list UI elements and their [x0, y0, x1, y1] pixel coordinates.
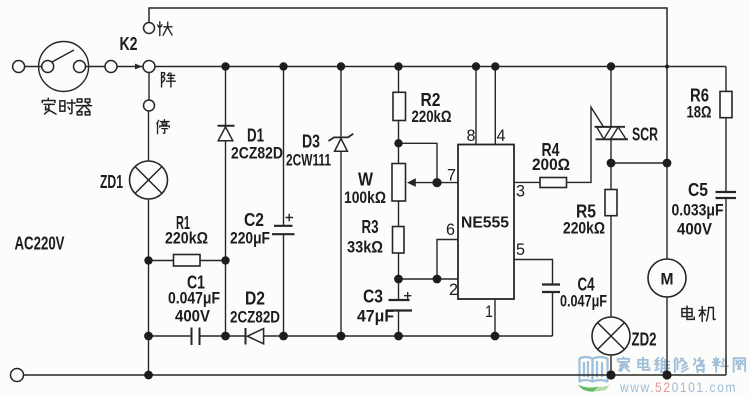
- wire top line from K2 fast contact across to motor column: [149, 8, 667, 163]
- terminal middle: [105, 61, 117, 73]
- timer contact left: [42, 61, 54, 73]
- watermark text 家电维修资料网: [618, 357, 745, 372]
- svg-text:3: 3: [516, 183, 525, 201]
- wire main AC line: [155, 66, 726, 68]
- resistor R3 box: [393, 227, 405, 254]
- junction dot pin7: [432, 178, 441, 187]
- wire timer to middle terminal: [86, 66, 105, 68]
- svg-text:R3: R3: [362, 217, 379, 237]
- svg-text:ZD1: ZD1: [100, 172, 123, 192]
- wire C2 column: [283, 67, 285, 226]
- wire bottom rail: [24, 374, 727, 376]
- wire pin 5 to C4: [514, 260, 553, 285]
- svg-text:ZD2: ZD2: [632, 330, 657, 350]
- diode D2: [245, 328, 247, 345]
- svg-text:220kΩ: 220kΩ: [563, 220, 605, 238]
- watermark green swoosh: [578, 385, 598, 392]
- svg-text:400V: 400V: [677, 221, 712, 239]
- capacitor C3 plates polarized: [389, 299, 410, 301]
- wire link R2 bottom to pin 7: [399, 143, 438, 182]
- wire K2 pole to stop contact: [148, 73, 150, 101]
- capacitor C4 plates: [542, 283, 560, 285]
- svg-text:R6: R6: [690, 86, 709, 106]
- svg-text:C2: C2: [244, 210, 264, 230]
- svg-text:M: M: [661, 271, 674, 289]
- svg-text:8: 8: [467, 127, 476, 145]
- resistor R6 box: [720, 91, 732, 117]
- label 快 fast: [158, 22, 172, 36]
- svg-text:47μF: 47μF: [357, 308, 394, 326]
- junction dots common line: [144, 332, 153, 341]
- switch K2 fast contact 快: [144, 23, 155, 34]
- wire D1 column: [225, 67, 227, 126]
- label 定时器 timer: [42, 98, 56, 114]
- svg-text:400V: 400V: [175, 308, 210, 326]
- wire R6-C5 column: [725, 67, 727, 92]
- wire stop contact down to lamp ZD1: [148, 111, 150, 161]
- wire ZD1 column down to bottom rail: [148, 199, 150, 375]
- wire pin 3 to R4: [514, 181, 540, 183]
- svg-text:2CW111: 2CW111: [286, 152, 331, 170]
- svg-text:200Ω: 200Ω: [532, 156, 570, 174]
- switch K2 pole contact: [143, 61, 155, 73]
- terminal left AC input top: [13, 61, 25, 73]
- timer contact right: [74, 61, 86, 73]
- svg-text:R2: R2: [421, 90, 441, 110]
- wire D3 column: [340, 67, 342, 138]
- junction dot R2 bottom: [394, 139, 402, 147]
- junction dots SCR cathode: [607, 159, 616, 168]
- wire left terminal to timer: [25, 66, 42, 68]
- svg-text:D2: D2: [245, 289, 265, 309]
- svg-text:C3: C3: [363, 287, 383, 307]
- thyristor SCR triac symbol: [595, 126, 626, 128]
- wire R5 to ZD2: [610, 163, 612, 190]
- diode D1: [218, 125, 235, 127]
- svg-text:18Ω: 18Ω: [687, 104, 712, 122]
- svg-text:2CZ82D: 2CZ82D: [231, 145, 283, 163]
- svg-text:D1: D1: [247, 126, 264, 146]
- timer blade: [51, 50, 74, 63]
- wire SCR column: [610, 67, 612, 127]
- capacitor C2 plates polarized: [274, 225, 293, 227]
- svg-text:220μF: 220μF: [230, 230, 270, 248]
- resistor R4 box: [540, 178, 567, 188]
- svg-text:W: W: [358, 170, 373, 190]
- svg-text:6: 6: [446, 221, 455, 239]
- label 停 stop: [157, 120, 170, 134]
- watermark book icon: [580, 357, 608, 382]
- wire motor column: [666, 163, 668, 259]
- svg-text:AC220V: AC220V: [15, 234, 65, 254]
- wire ZD2 to bottom rail: [610, 355, 612, 375]
- svg-text:0.047μF: 0.047μF: [168, 290, 220, 308]
- svg-text:www.520101.com: www.520101.com: [619, 380, 737, 395]
- svg-text:220kΩ: 220kΩ: [412, 108, 452, 126]
- svg-text:7: 7: [447, 167, 456, 185]
- wire pin 8: [475, 67, 477, 145]
- svg-text:2: 2: [449, 281, 458, 299]
- wire pin 6 stub: [437, 240, 458, 280]
- svg-text:0.047μF: 0.047μF: [560, 293, 607, 311]
- resistor R2 box: [393, 92, 406, 120]
- wire C4 bottom to common line: [552, 292, 554, 336]
- svg-text:0.033μF: 0.033μF: [672, 202, 724, 220]
- svg-text:33kΩ: 33kΩ: [347, 239, 383, 257]
- zener D3: [329, 134, 354, 141]
- wire pin 4: [494, 67, 496, 145]
- resistor R1 box: [174, 255, 201, 267]
- svg-text:2CZ82D: 2CZ82D: [230, 309, 280, 327]
- junction dots pin2 line: [394, 275, 403, 284]
- capacitor C1 plates: [191, 328, 193, 346]
- junction dots bottom rail: [144, 371, 153, 380]
- wire R2-W-R3-C3 column: [398, 67, 400, 93]
- junction dots main line: [221, 62, 229, 70]
- svg-text:1: 1: [485, 303, 493, 321]
- svg-text:C4: C4: [578, 275, 595, 295]
- wire R4 to SCR gate: [567, 107, 604, 182]
- IC NE555 box: [458, 145, 514, 300]
- capacitor C5 plates: [716, 191, 737, 193]
- label 阵 gust: [162, 72, 176, 87]
- svg-text:NE555: NE555: [461, 215, 509, 232]
- svg-text:K2: K2: [120, 34, 138, 54]
- svg-text:100kΩ: 100kΩ: [344, 189, 386, 207]
- junction dots R1: [144, 256, 152, 264]
- svg-text:SCR: SCR: [632, 125, 658, 145]
- lamp ZD1: [130, 161, 168, 199]
- label 电机 motor: [682, 306, 694, 319]
- timer switch body 定时器: [39, 42, 89, 92]
- svg-text:5: 5: [516, 241, 525, 259]
- svg-text:220kΩ: 220kΩ: [165, 230, 208, 248]
- wire middle terminal to K2 pole with arrow: [117, 66, 143, 68]
- wire pin 1: [494, 299, 496, 336]
- wire SCR cathode to motor column: [611, 162, 667, 164]
- svg-text:4: 4: [497, 127, 506, 145]
- svg-text:C5: C5: [688, 180, 708, 200]
- terminal left AC input bottom: [11, 369, 24, 382]
- svg-text:R5: R5: [576, 202, 596, 222]
- resistor R5 box: [605, 190, 617, 216]
- arrow into K2 pole: [135, 64, 142, 70]
- wire pin 2: [399, 278, 459, 280]
- switch K2 stop contact 停: [144, 100, 155, 111]
- lamp ZD2: [592, 317, 630, 355]
- small crossing blob: [665, 65, 669, 69]
- motor M: [648, 259, 686, 297]
- wire pin 7: [416, 182, 459, 184]
- potentiometer W box: [392, 164, 406, 202]
- potentiometer W wiper arrow: [407, 178, 416, 187]
- wire R1 branch: [149, 260, 174, 262]
- wire DC common line: [149, 335, 192, 337]
- svg-text:D3: D3: [302, 132, 320, 152]
